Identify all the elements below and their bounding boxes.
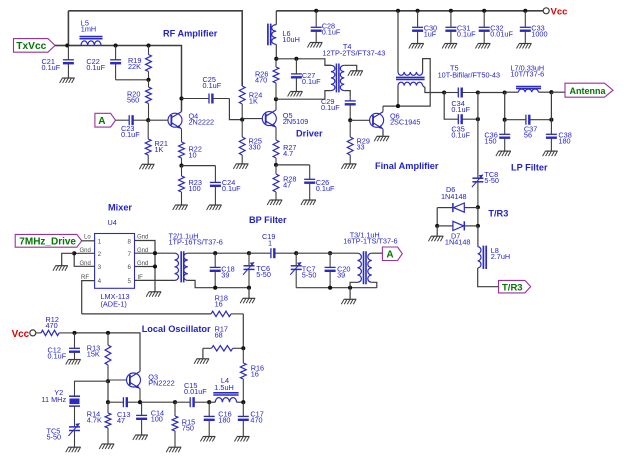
ground C31 — [442, 44, 457, 49]
wire D6 cathode to left rail — [437, 207, 453, 209]
node Q5 collector — [274, 97, 278, 101]
wire L6 node to T4 primary top — [276, 59, 331, 66]
net flag T/R3 (output) — [499, 280, 531, 293]
svg-text:R26470: R26470 — [255, 70, 268, 85]
node D7 anode — [435, 224, 439, 228]
node C20 bottom — [328, 286, 332, 290]
wire C35 branch left — [444, 93, 454, 120]
node Q3 emitter — [138, 400, 142, 404]
svg-text:TC75-50: TC75-50 — [302, 265, 317, 280]
svg-text:C301uF: C301uF — [424, 24, 437, 39]
wire L4 to output node — [237, 401, 244, 403]
trimmer capacitor TC5 — [69, 422, 81, 448]
svg-text:1.5uH: 1.5uH — [214, 383, 233, 392]
net flag A (RF amp input) — [95, 113, 116, 127]
ground C24 — [207, 205, 222, 210]
node T5 output — [442, 90, 446, 94]
node Q4 collector — [179, 96, 183, 100]
ground T4 secondary — [348, 71, 363, 76]
ground C16 — [200, 437, 215, 442]
resistor R15 — [172, 402, 178, 447]
wire emitter rail — [142, 401, 175, 403]
wire pin6 stub — [135, 266, 156, 268]
transistor Q5 — [242, 99, 276, 127]
node C20 top — [328, 251, 332, 255]
wire TxVcc flag to L5 — [55, 45, 81, 47]
svg-text:Driver: Driver — [296, 129, 323, 139]
capacitor C14 — [136, 402, 147, 435]
capacitor C23 — [116, 115, 149, 125]
wire TxVcc feed rail / Q4 collector — [55, 46, 182, 112]
ground R14 — [99, 444, 114, 449]
wire C36 node to L7 — [505, 91, 519, 93]
ground C30 — [409, 44, 424, 49]
svg-text:C36150: C36150 — [484, 131, 497, 146]
ground C21 — [60, 78, 75, 83]
transistor Q3 — [108, 371, 141, 402]
ground C12 — [66, 360, 81, 365]
node L4 input — [207, 400, 211, 404]
node R17/R16 — [241, 346, 245, 350]
svg-text:R144.7K: R144.7K — [87, 410, 102, 425]
ground R23 — [173, 205, 188, 210]
node C18 top — [213, 251, 217, 255]
svg-text:R23100: R23100 — [189, 178, 202, 193]
wire U4 left ground drop — [62, 253, 74, 265]
wire base node down to C13 node — [107, 381, 109, 402]
wire to LP filter — [478, 92, 505, 94]
svg-text:TC65-50: TC65-50 — [256, 264, 271, 279]
node BP right ground — [348, 286, 352, 290]
wire pin1 Lo stub — [82, 240, 95, 242]
wire TxVcc rail drop at C21 — [67, 11, 69, 46]
node U4 right gnd 1 — [153, 251, 157, 255]
wire T5 top winding right to cross-connect — [383, 59, 430, 107]
net flag A (BP output) — [382, 247, 402, 261]
wire emitter node to C24 — [182, 165, 216, 167]
transformer T2 — [175, 251, 188, 282]
resistor R17 — [203, 346, 243, 351]
inductor L4 — [213, 393, 238, 402]
inductor L8 — [478, 246, 487, 269]
ground R25 — [233, 164, 248, 169]
svg-text:RF Amplifier: RF Amplifier — [163, 29, 218, 39]
ground C38 — [543, 151, 558, 156]
transformer T5 — [396, 72, 425, 86]
trimmer capacitor TC8 — [472, 175, 484, 208]
wire Vcc rail to T5 top winding — [397, 11, 399, 72]
crystal Y2 — [69, 381, 80, 421]
svg-text:R25330: R25330 — [249, 137, 262, 152]
node L7 input — [503, 90, 507, 94]
node R13 top — [106, 331, 110, 335]
wire D7 anode lead — [437, 225, 453, 227]
svg-text:C17470: C17470 — [250, 410, 263, 425]
wire Q6 emitter to ground — [382, 130, 384, 137]
node TC6 bottom — [247, 286, 251, 290]
svg-text:T/R3: T/R3 — [502, 282, 523, 293]
wire emitter node to C26 — [276, 164, 310, 166]
wire D7 cathode to node — [464, 225, 478, 227]
wire R17 ground stub — [202, 348, 204, 359]
svg-text:16TP-1TS/T37-6: 16TP-1TS/T37-6 — [343, 237, 397, 246]
node C27 tap — [294, 57, 298, 61]
node R19/R20/C22 — [146, 78, 150, 82]
transformer T3 — [357, 251, 371, 284]
node rail C31 — [449, 9, 453, 13]
svg-text:C38180: C38180 — [558, 131, 571, 146]
trimmer capacitor TC6 — [243, 253, 255, 288]
ground C27 — [288, 92, 303, 97]
wire TxVcc top rail to R24 — [68, 11, 242, 86]
resistor R23 — [179, 166, 185, 205]
resistor R22 — [179, 129, 185, 166]
net flag TxVcc — [14, 39, 56, 53]
node Q4 base — [146, 118, 150, 122]
wire pin4 RF drop — [82, 281, 95, 314]
ground diodes — [428, 236, 443, 241]
capacitor C33 — [520, 11, 531, 44]
wire Vcc rail to L6 — [275, 11, 277, 25]
svg-text:LMX-113(ADE-1): LMX-113(ADE-1) — [101, 292, 130, 309]
capacitor C20 — [325, 253, 336, 288]
resistor R18 — [211, 311, 243, 316]
wire C25 to Q5 base node — [229, 99, 242, 120]
capacitor C34 — [444, 88, 478, 98]
wire base node to crystal — [75, 380, 109, 382]
wire TC8 to D7 node — [477, 207, 479, 226]
ground Q6 emitter — [374, 136, 389, 141]
svg-text:R1922K: R1922K — [128, 56, 141, 71]
capacitor C32 — [479, 11, 490, 44]
node TxVcc rail / C21 — [65, 43, 69, 47]
resistor R16 — [240, 348, 246, 402]
wire T4 primary bottom drop — [325, 91, 331, 100]
ground C17 — [235, 437, 250, 442]
node R15 — [173, 400, 177, 404]
capacitor C16 — [204, 402, 215, 436]
wire C22 to R19/R20 junction — [116, 79, 149, 81]
wire BP left ground stub — [248, 288, 250, 299]
ground R28 — [267, 200, 282, 205]
node U4 gnd pins left — [72, 251, 76, 255]
wire T2 secondary bottom rail — [188, 280, 249, 287]
resistor R28 — [273, 165, 279, 200]
resistor R21 — [145, 120, 151, 164]
wire pin8 stub / right gnd rail — [135, 241, 156, 292]
node C18 bottom — [213, 286, 217, 290]
ground C14 — [133, 435, 148, 440]
ground BP filter right — [341, 299, 356, 304]
svg-text:R1315K: R1315K — [87, 344, 100, 359]
wire TC7 to T3 primary top — [296, 252, 357, 254]
wire to Antenna flag — [551, 91, 565, 93]
wire T5 bottom winding to C34 node — [423, 86, 445, 93]
svg-text:Mixer: Mixer — [108, 203, 132, 213]
capacitor C38 — [546, 120, 557, 151]
wire R18 to R17 node — [242, 314, 244, 348]
ground U4 pins 2-3 — [53, 266, 68, 271]
resistor R25 — [239, 120, 245, 164]
svg-text:Vcc: Vcc — [12, 329, 30, 340]
capacitor C29 — [345, 97, 356, 121]
node D6 — [476, 205, 480, 209]
node U4 right gnd 2 — [153, 264, 157, 268]
wire pin7 stub to T2 primary — [135, 252, 175, 254]
svg-text:A: A — [386, 250, 393, 261]
node T5 / Q6 collector — [396, 104, 400, 108]
capacitor C21 — [63, 46, 74, 79]
capacitor C15 — [175, 397, 209, 407]
svg-text:U4: U4 — [108, 218, 117, 227]
trimmer capacitor TC7 — [290, 253, 302, 288]
ground R17 — [194, 359, 209, 364]
svg-text:1N4148: 1N4148 — [445, 238, 471, 247]
ground R21 — [139, 164, 154, 169]
capacitor C13 — [108, 397, 142, 407]
node C35 output — [476, 117, 480, 121]
wire diode left rail — [436, 208, 438, 226]
capacitor C27 — [291, 59, 302, 92]
ground R29 — [341, 164, 356, 169]
svg-text:A: A — [98, 116, 105, 127]
svg-text:L7/0.33uH10T/T37-6: L7/0.33uH10T/T37-6 — [511, 64, 545, 79]
mixer U4 body — [95, 234, 135, 289]
svg-text:TxVcc: TxVcc — [16, 41, 46, 52]
net flag 7MHz_Drive — [15, 234, 82, 247]
ground C36 — [496, 151, 511, 156]
node LP filter input — [476, 90, 480, 94]
resistor R12 — [36, 330, 75, 335]
svg-text:R15750: R15750 — [182, 418, 195, 433]
wire pin5 IF stub to T2 — [135, 279, 175, 281]
capacitor C25 — [182, 94, 230, 104]
wire C15 node to L4 — [209, 401, 215, 403]
node C12 — [72, 331, 76, 335]
resistor R19 — [146, 46, 152, 80]
net flag Antenna — [565, 83, 613, 97]
node TxVcc rail / C22 — [114, 43, 118, 47]
wire antenna node down to C38 — [550, 92, 552, 120]
wire C36 node down — [504, 93, 506, 120]
inductor L5 — [80, 37, 103, 46]
wire Vcc line to Q3 collector — [75, 333, 141, 372]
wire L6 to R26 — [275, 44, 277, 59]
resistor R29 — [347, 120, 353, 164]
svg-text:1N4148: 1N4148 — [441, 192, 467, 201]
svg-text:T/R3: T/R3 — [488, 209, 508, 219]
resistor R13 — [105, 333, 111, 381]
svg-text:7MHz_Drive: 7MHz_Drive — [19, 237, 76, 248]
svg-text:LP Filter: LP Filter — [511, 163, 548, 173]
capacitor C36 — [499, 120, 510, 151]
diode D6 — [453, 203, 464, 212]
capacitor C28 — [311, 11, 322, 43]
resistor R14 — [105, 402, 111, 444]
capacitor C31 — [445, 11, 456, 44]
capacitor C18 — [210, 253, 221, 288]
inductor L6 — [268, 24, 276, 46]
wire pin3 Gnd stub — [74, 253, 94, 266]
transistor Q6 — [350, 106, 383, 130]
wire RF line to R18 — [82, 313, 211, 315]
ground BP filter left — [240, 298, 255, 303]
wire pin2 Gnd stub — [74, 252, 94, 254]
wire L7 to antenna node — [538, 91, 551, 93]
ground U4 pins 8-7-6 — [146, 292, 161, 297]
node C37/C38 — [549, 118, 553, 122]
node L6/R26/C27 — [274, 57, 278, 61]
capacitor C17 — [238, 402, 249, 436]
svg-text:Final Amplifier: Final Amplifier — [375, 161, 439, 171]
ground TC5 — [66, 447, 81, 452]
wire T3 primary bottom to rail — [350, 282, 357, 287]
wire T3 secondary bottom to rail — [372, 282, 377, 287]
wire diode rail to ground — [436, 226, 438, 236]
wire down to TC8 — [477, 93, 479, 179]
node D7 — [476, 224, 480, 228]
inductor L7 — [516, 87, 541, 93]
wire BP right bottom rail — [296, 287, 377, 289]
ground C32 — [475, 44, 490, 49]
node rail C33 — [523, 9, 527, 13]
capacitor C19 — [249, 248, 296, 258]
node rail C30 — [416, 9, 420, 13]
wire T4 secondary bottom to C29 — [344, 91, 350, 97]
svg-text:Antenna: Antenna — [570, 86, 607, 96]
diode D7 — [453, 221, 464, 230]
svg-text:TC85-50: TC85-50 — [484, 170, 499, 185]
node TxVcc rail / R19 — [146, 43, 150, 47]
node rail C28 — [314, 9, 318, 13]
svg-text:C14100: C14100 — [151, 409, 164, 424]
svg-text:R20560: R20560 — [127, 90, 140, 105]
resistor R27 — [273, 128, 279, 165]
ground C26 — [301, 200, 316, 205]
resistor R26 — [273, 59, 279, 99]
capacitor C37 — [505, 115, 552, 125]
wire D7 node to L8 — [477, 226, 479, 247]
resistor R24 — [239, 86, 245, 120]
node rail C32 — [482, 9, 486, 13]
capacitor C35 — [454, 114, 478, 124]
power flag Vcc (top right) — [543, 7, 567, 18]
transformer T4 — [331, 64, 344, 93]
node rail T5 feed — [396, 9, 400, 13]
node Q6 base — [348, 118, 352, 122]
node C13/R14 — [106, 400, 110, 404]
svg-text:Vcc: Vcc — [551, 7, 568, 18]
node R22/R23/C24 — [179, 164, 183, 168]
wire Q5 collector to T4 primary bottom — [276, 98, 325, 100]
node L4 output — [241, 400, 245, 404]
svg-text:11 MHz: 11 MHz — [42, 395, 67, 404]
wire T5 bottom winding left down — [397, 86, 399, 107]
wire BP right ground stub — [349, 288, 351, 300]
ground R15 — [166, 447, 181, 452]
power flag Vcc (oscillator) — [12, 329, 36, 340]
node Q3 base — [106, 379, 110, 383]
svg-text:R12470: R12470 — [46, 315, 59, 330]
wire T2 secondary top to BP filter — [188, 252, 249, 254]
capacitor C30 — [412, 11, 423, 44]
node TC6 top — [247, 251, 251, 255]
resistor R20 — [146, 80, 152, 120]
capacitor C12 — [69, 333, 80, 360]
capacitor C26 — [304, 165, 315, 200]
wire T3 secondary top to A flag — [372, 252, 383, 254]
svg-text:1: 1 — [268, 238, 272, 247]
ground C33 — [517, 44, 532, 49]
svg-text:TC55-50: TC55-50 — [47, 427, 62, 442]
node Q5 base — [240, 118, 244, 122]
ground C28 — [307, 43, 322, 48]
svg-text:12TP-2TS/FT37-43: 12TP-2TS/FT37-43 — [322, 49, 385, 58]
wire T4 primary top lead — [325, 64, 331, 66]
transistor Q4 — [148, 112, 182, 129]
wire D6 anode to node — [464, 207, 478, 209]
node R27/R28/C26 — [274, 163, 278, 167]
svg-text:10T-Bifilar/FT50-43: 10T-Bifilar/FT50-43 — [438, 71, 500, 80]
wire L8 to T/R3 flag — [478, 268, 499, 287]
node TC7 top — [294, 251, 298, 255]
node antenna — [549, 90, 553, 94]
capacitor C22 — [110, 46, 121, 80]
node C36/C37 — [503, 118, 507, 122]
capacitor C24 — [210, 166, 221, 205]
svg-text:Local Oscillator: Local Oscillator — [142, 324, 211, 334]
wire Vcc rail — [276, 10, 543, 12]
svg-text:BP Filter: BP Filter — [249, 215, 287, 225]
wire T4 secondary top to ground — [344, 65, 356, 71]
svg-text:C16180: C16180 — [218, 410, 231, 425]
